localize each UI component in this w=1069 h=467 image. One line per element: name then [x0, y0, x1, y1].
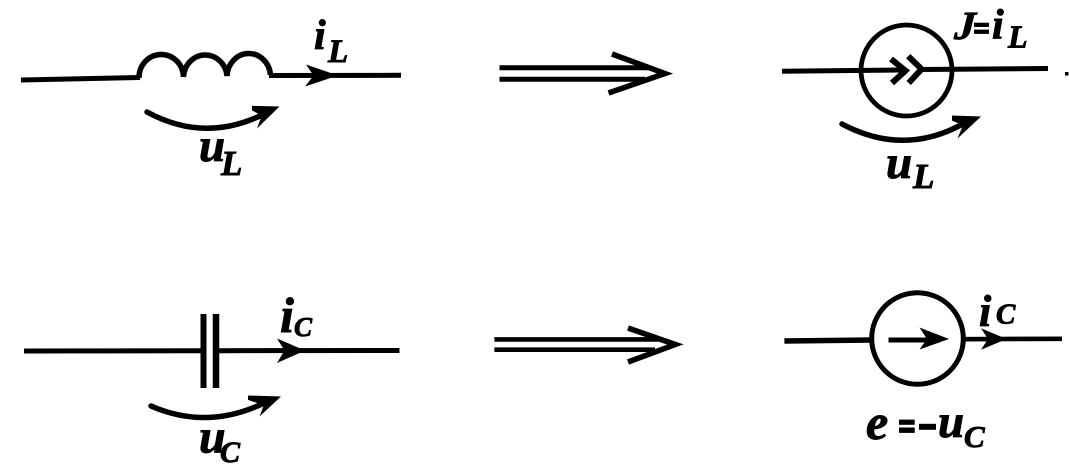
svg-text:L: L — [327, 34, 348, 70]
wire left lead of current source — [782, 70, 906, 71]
implication arrow top — [500, 54, 666, 93]
svg-text:C: C — [996, 299, 1016, 331]
svg-text:L: L — [912, 157, 934, 196]
inductor L1 (three humps) — [139, 54, 271, 78]
svg-text:C: C — [294, 312, 313, 342]
capacitor C1 plate left — [201, 314, 207, 388]
svg-text:C: C — [964, 419, 985, 454]
wire right lead of capacitor — [219, 348, 400, 353]
wire right lead of EMF source — [963, 336, 1062, 341]
svg-text:i: i — [979, 287, 992, 336]
current arrowhead iL on wire — [305, 65, 338, 87]
label uL (left) — [199, 120, 242, 183]
svg-text:u: u — [938, 396, 964, 448]
svg-text:L: L — [220, 144, 242, 183]
current source J (circle) — [861, 25, 952, 116]
svg-text:i: i — [280, 287, 294, 343]
label J = iL — [950, 3, 1028, 55]
label uC — [199, 411, 241, 467]
label iC — [280, 287, 313, 343]
voltage arc uL (left) — [147, 106, 280, 129]
svg-text:L: L — [1007, 19, 1028, 55]
svg-text:e: e — [866, 394, 888, 450]
label iL — [314, 13, 348, 70]
wire left lead of inductor — [21, 78, 140, 81]
voltage arc uC — [151, 396, 281, 418]
svg-text:i: i — [314, 13, 326, 59]
small artifact dot right edge — [1065, 72, 1069, 76]
capacitor C1 plate right — [213, 314, 220, 388]
label uL (right) — [886, 137, 934, 196]
chevron 2 inside current source — [908, 56, 921, 83]
label e = -uC — [866, 394, 985, 454]
wire left lead of capacitor — [24, 348, 201, 353]
label iC (right) — [979, 287, 1016, 336]
current arrowhead iC on right wire — [981, 328, 1007, 349]
svg-text:u: u — [886, 137, 912, 189]
voltage arc uL (right) — [842, 116, 981, 141]
svg-text:i: i — [992, 3, 1004, 49]
wire right lead of current source — [922, 69, 1048, 70]
EMF source e (circle) — [872, 293, 964, 385]
chevron 1 inside current source — [891, 59, 906, 83]
implication arrow bottom — [494, 328, 675, 362]
wire left lead of EMF source — [784, 340, 872, 341]
EMF arrow inside source — [889, 328, 950, 350]
svg-text:C: C — [220, 436, 241, 467]
current arrowhead iC on wire — [277, 339, 305, 364]
wire right lead of inductor — [269, 73, 401, 78]
